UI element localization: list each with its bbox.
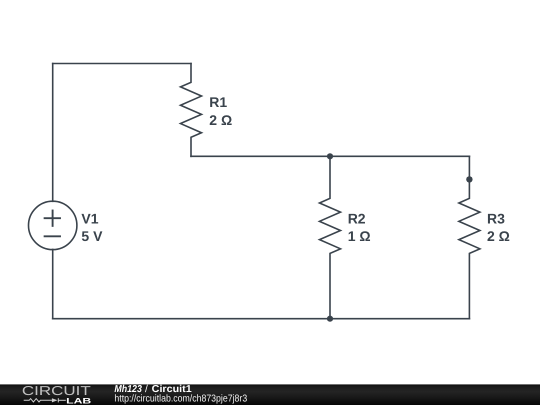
svg-text:R1: R1 xyxy=(209,94,227,110)
svg-text:1 Ω: 1 Ω xyxy=(348,228,371,244)
svg-text:R2: R2 xyxy=(348,210,366,226)
svg-text:LAB: LAB xyxy=(66,396,92,405)
wire top horizontal xyxy=(53,63,191,65)
junction dot node R2 top xyxy=(327,153,333,159)
svg-text:5 V: 5 V xyxy=(81,228,103,244)
resistor R2 xyxy=(320,156,341,318)
CircuitLab logo resistor-diode glyph xyxy=(24,398,66,402)
wire bottom horizontal xyxy=(53,318,470,320)
svg-text:2 Ω: 2 Ω xyxy=(209,112,232,128)
svg-text:2 Ω: 2 Ω xyxy=(487,228,510,244)
wire middle horizontal xyxy=(191,155,469,157)
wire left vertical lower xyxy=(52,250,54,319)
junction dot node R3 top xyxy=(466,176,472,182)
wire left vertical upper xyxy=(52,64,54,202)
voltage source V1 xyxy=(29,201,77,249)
resistor R1 xyxy=(181,64,202,157)
svg-text:http://circuitlab.com/ch873pje: http://circuitlab.com/ch873pje7j8r3 xyxy=(114,394,247,405)
resistor R3 xyxy=(459,156,480,318)
junction dot node R2 bottom xyxy=(327,316,333,322)
footer bar xyxy=(0,384,540,405)
svg-text:V1: V1 xyxy=(81,210,98,226)
svg-text:R3: R3 xyxy=(487,210,505,226)
